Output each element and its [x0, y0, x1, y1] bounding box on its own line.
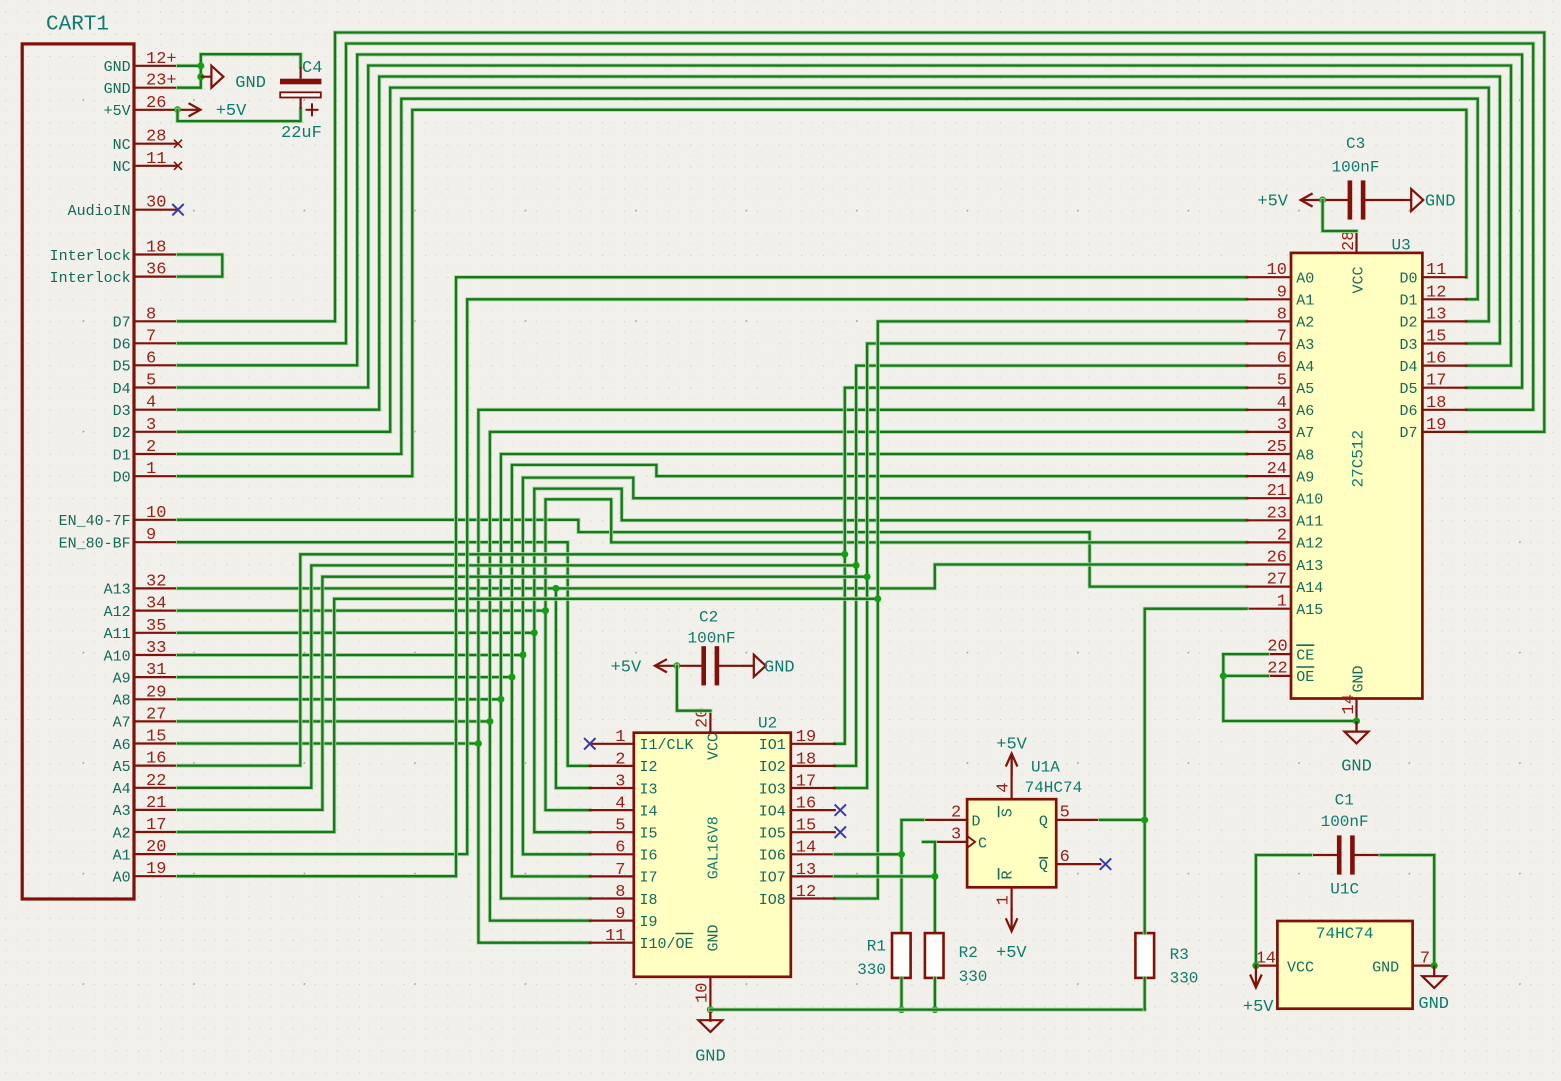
- svg-text:Q: Q: [1039, 813, 1048, 830]
- wire R2 bottom to GND rail: [933, 978, 937, 1010]
- svg-text:I6: I6: [640, 848, 658, 865]
- connector pin 27 A7: [134, 720, 178, 722]
- svg-text:29: 29: [146, 683, 166, 702]
- svg-text:23+: 23+: [146, 72, 177, 91]
- svg-text:11: 11: [605, 927, 625, 946]
- svg-text:26: 26: [1267, 549, 1287, 568]
- wire A3 channel: [178, 577, 867, 810]
- label +5V at C2: [611, 658, 642, 677]
- svg-text:+5V: +5V: [996, 735, 1027, 754]
- svg-text:D6: D6: [1399, 403, 1417, 420]
- svg-text:14: 14: [796, 839, 816, 858]
- svg-text:4: 4: [1277, 394, 1287, 413]
- wire D7 connector to ROM: [178, 33, 1544, 432]
- wire A10 tap to GAL: [523, 655, 590, 854]
- connector pin 29 A8: [134, 698, 178, 700]
- connector pin 16 A5: [134, 764, 178, 766]
- wire A4 riser to ROM: [856, 366, 1247, 566]
- svg-text:6: 6: [615, 839, 625, 858]
- svg-text:7: 7: [1420, 949, 1430, 968]
- wire A7 tap to GAL: [490, 721, 590, 920]
- wire A5 channel: [178, 554, 845, 765]
- connector pin 33 A10: [134, 654, 178, 656]
- label GND at U1C pin7: [1418, 995, 1449, 1014]
- power symbol GND below U3: [1345, 721, 1369, 743]
- label GND at C3: [1425, 193, 1456, 212]
- svg-text:9: 9: [1277, 283, 1287, 302]
- label 27C512 vertical: [1350, 430, 1368, 488]
- svg-text:3: 3: [951, 826, 961, 845]
- connector pin 19 A0: [134, 875, 178, 877]
- junction R1 GND: [898, 1006, 905, 1013]
- connector pin 5 D4: [134, 386, 178, 388]
- wire R1 bottom to GND rail: [900, 978, 904, 1010]
- svg-text:I4: I4: [640, 803, 658, 820]
- svg-text:16: 16: [146, 750, 166, 769]
- svg-text:330: 330: [1170, 970, 1199, 988]
- ROM pin 28 VCC: [1355, 231, 1357, 253]
- svg-text:D4: D4: [113, 381, 131, 398]
- wire GND pin12 to junction: [178, 64, 201, 68]
- svg-text:A0: A0: [113, 870, 131, 887]
- svg-text:4: 4: [995, 782, 1014, 792]
- connector pin 17 A2: [134, 831, 178, 833]
- GAL pin 16 IO4: [791, 809, 835, 811]
- svg-text:A8: A8: [113, 693, 131, 710]
- svg-text:30: 30: [146, 194, 166, 213]
- wire D2 connector to ROM: [178, 88, 1489, 432]
- label U3: [1392, 237, 1411, 255]
- power symbol GND below U1C pin7: [1422, 966, 1446, 988]
- svg-text:IO3: IO3: [759, 781, 786, 798]
- power symbol +5V at connector: [179, 103, 201, 116]
- svg-text:A9: A9: [1296, 469, 1314, 486]
- label C2 100nF: [688, 630, 736, 648]
- svg-text:5: 5: [1060, 804, 1070, 823]
- svg-text:10: 10: [146, 504, 166, 523]
- svg-text:1: 1: [615, 728, 625, 747]
- wire A3 riser to ROM: [867, 344, 1247, 577]
- connector CART1 reference label: [46, 14, 109, 37]
- svg-text:9: 9: [146, 526, 156, 545]
- connector pin 12+ GND: [134, 65, 178, 67]
- connector CART1 outline: [22, 44, 134, 899]
- svg-text:27C512: 27C512: [1350, 430, 1368, 488]
- label GND below U3: [1341, 758, 1372, 777]
- ROM pin 12 D1: [1422, 298, 1466, 300]
- connector pin 35 A11: [134, 632, 178, 634]
- wire D1 connector to ROM: [178, 99, 1478, 454]
- flip-flop U1A body: [967, 799, 1056, 887]
- connector pin 8 D7: [134, 320, 178, 322]
- junction IO6 D R1: [898, 851, 905, 858]
- svg-text:A2: A2: [1296, 315, 1314, 332]
- svg-text:5: 5: [615, 817, 625, 836]
- connector pin 11 NC: [134, 165, 178, 167]
- svg-text:GND: GND: [1372, 959, 1399, 976]
- svg-text:S: S: [999, 808, 1016, 817]
- svg-text:36: 36: [146, 261, 166, 280]
- svg-text:CART1: CART1: [46, 14, 109, 37]
- power symbol +5V above U1A: [1006, 754, 1018, 777]
- wire GND pin23 riser: [178, 54, 301, 87]
- svg-text:GND: GND: [695, 1047, 726, 1066]
- svg-text:A13: A13: [1296, 558, 1323, 575]
- IC U1C body: [1277, 921, 1412, 1009]
- no-connect X GAL IO4: [835, 804, 846, 815]
- ROM pin 19 D7: [1422, 431, 1466, 433]
- svg-text:I10/OE: I10/OE: [640, 936, 694, 953]
- svg-text:11: 11: [1426, 261, 1446, 280]
- wire A8 to ROM: [178, 454, 1247, 699]
- GAL pin 3 I3: [590, 787, 634, 789]
- svg-text:D1: D1: [113, 447, 131, 464]
- label U3 VCC vertical: [1351, 266, 1368, 293]
- ROM pin 4 A6: [1247, 409, 1291, 411]
- svg-text:C1: C1: [1335, 792, 1354, 810]
- svg-text:21: 21: [146, 794, 166, 813]
- svg-text:D: D: [972, 813, 981, 830]
- GAL pin 11 I10/OE: [590, 942, 634, 944]
- resistor R2: [925, 933, 944, 978]
- svg-text:R2: R2: [959, 944, 978, 962]
- ROM pin 16 D4: [1422, 365, 1466, 367]
- connector pin 18 Interlock: [134, 253, 178, 255]
- wire A12 tap to GAL: [546, 611, 590, 811]
- wire A11 to ROM: [178, 489, 1247, 633]
- U1A pin 5 Q: [1056, 819, 1100, 821]
- connector pin 34 A12: [134, 609, 178, 611]
- label U1A 74HC74: [1025, 779, 1083, 797]
- wire A2 riser to ROM: [878, 321, 1247, 598]
- svg-text:VCC: VCC: [1287, 959, 1314, 976]
- ROM pin 14 GND: [1355, 699, 1357, 732]
- svg-text:12+: 12+: [146, 50, 177, 69]
- svg-text:+5V: +5V: [104, 103, 131, 120]
- svg-text:13: 13: [796, 861, 816, 880]
- wire CE OE tie: [1223, 654, 1268, 676]
- label U3 GND vertical: [1351, 665, 1368, 692]
- svg-text:22: 22: [146, 772, 166, 791]
- GAL pin 6 I6: [590, 853, 634, 855]
- svg-text:8: 8: [1277, 305, 1287, 324]
- svg-text:IO6: IO6: [759, 848, 786, 865]
- ROM pin 2 A12: [1247, 541, 1291, 543]
- label U2 GND vertical: [706, 924, 723, 951]
- svg-text:20: 20: [146, 838, 166, 857]
- label U1A: [1031, 759, 1060, 777]
- wire A9 tap to GAL: [512, 677, 590, 876]
- svg-text:D1: D1: [1399, 293, 1417, 310]
- wire A11 tap to GAL: [534, 633, 590, 832]
- wire Q to A15 and R3: [1100, 818, 1145, 822]
- svg-text:CE: CE: [1296, 647, 1314, 664]
- svg-text:3: 3: [615, 772, 625, 791]
- label C4: [302, 59, 322, 78]
- svg-text:+5V: +5V: [1243, 998, 1274, 1017]
- label R3: [1170, 946, 1189, 964]
- wire A6 tap to GAL: [478, 744, 589, 943]
- svg-text:15: 15: [146, 728, 166, 747]
- wire A5 drop to GAL IO: [835, 554, 845, 744]
- svg-text:Interlock: Interlock: [50, 248, 131, 265]
- connector pin 6 D5: [134, 364, 178, 366]
- svg-text:I7: I7: [640, 870, 658, 887]
- power symbol +5V at C2: [655, 659, 677, 672]
- svg-text:IO4: IO4: [759, 803, 786, 820]
- wire C1 right to GND: [1381, 855, 1435, 966]
- svg-text:GND: GND: [706, 924, 723, 951]
- svg-text:EN_40-7F: EN_40-7F: [59, 513, 131, 530]
- wire GND rail: [710, 1008, 1144, 1012]
- svg-text:6: 6: [1277, 350, 1287, 369]
- connector pin 23+ GND: [134, 87, 178, 89]
- svg-text:GND: GND: [1425, 193, 1456, 212]
- svg-text:2: 2: [1277, 526, 1287, 545]
- svg-text:+5V: +5V: [1257, 193, 1288, 212]
- junction A3 channel: [864, 573, 871, 580]
- svg-text:A4: A4: [113, 781, 131, 798]
- label GAL16V8 vertical: [706, 816, 723, 879]
- ROM pin 7 A3: [1247, 342, 1291, 344]
- ROM pin 25 A8: [1247, 453, 1291, 455]
- wire D4 connector to ROM: [178, 66, 1511, 388]
- svg-text:NC: NC: [113, 159, 131, 176]
- svg-text:IO2: IO2: [759, 759, 786, 776]
- junction CE OE: [1220, 672, 1227, 679]
- svg-text:6: 6: [1060, 848, 1070, 867]
- junction U3 GND: [1353, 718, 1360, 725]
- svg-text:34: 34: [146, 595, 166, 614]
- svg-text:17: 17: [796, 772, 816, 791]
- no-connect X U1A Qbar: [1100, 858, 1111, 869]
- connector pin 32 A13: [134, 587, 178, 589]
- connector pin 31 A9: [134, 676, 178, 678]
- svg-text:GND: GND: [104, 81, 131, 98]
- svg-text:IO5: IO5: [759, 826, 786, 843]
- svg-text:A1: A1: [113, 847, 131, 864]
- wire A12 to ROM: [178, 499, 1247, 610]
- resistor R3: [1135, 933, 1154, 978]
- wire A10 to ROM: [178, 478, 1247, 655]
- svg-text:R3: R3: [1170, 946, 1189, 964]
- svg-text:3: 3: [1277, 416, 1287, 435]
- svg-text:18: 18: [146, 239, 166, 258]
- GAL pin 17 IO3: [791, 787, 835, 789]
- U1A pin 3 C clock: [923, 841, 967, 843]
- svg-text:GND: GND: [764, 658, 795, 677]
- connector pin 22 A4: [134, 787, 178, 789]
- svg-text:1: 1: [1277, 593, 1287, 612]
- junction A6: [475, 740, 482, 747]
- ROM pin 26 A13: [1247, 563, 1291, 565]
- wire A4 drop to GAL IO: [835, 565, 856, 766]
- junction A10: [519, 652, 526, 659]
- svg-text:19: 19: [1426, 416, 1446, 435]
- svg-text:100nF: 100nF: [1321, 813, 1369, 831]
- label C3 100nF: [1332, 159, 1380, 177]
- svg-text:D0: D0: [113, 470, 131, 487]
- svg-text:A9: A9: [113, 670, 131, 687]
- ROM pin 23 A11: [1247, 519, 1291, 521]
- junction A8: [497, 696, 504, 703]
- wire A8 tap to GAL: [501, 699, 590, 898]
- power symbol GND near C4: [201, 66, 224, 88]
- svg-text:I1/CLK: I1/CLK: [640, 737, 694, 754]
- junction GND a: [197, 62, 204, 69]
- svg-text:3: 3: [146, 416, 156, 435]
- GAL pin 12 IO8: [791, 897, 835, 899]
- svg-text:27: 27: [1267, 571, 1287, 590]
- power symbol GND at C3: [1401, 189, 1424, 211]
- svg-text:8: 8: [615, 883, 625, 902]
- svg-text:26: 26: [146, 94, 166, 113]
- connector pin 20 A1: [134, 853, 178, 855]
- svg-text:A5: A5: [113, 759, 131, 776]
- svg-text:D6: D6: [113, 337, 131, 354]
- svg-text:28: 28: [1340, 231, 1359, 251]
- GAL pin 2 I2: [590, 765, 634, 767]
- svg-text:21: 21: [1267, 482, 1287, 501]
- svg-text:1: 1: [146, 460, 156, 479]
- svg-text:33: 33: [146, 639, 166, 658]
- svg-text:A15: A15: [1296, 602, 1323, 619]
- junction C2 +5V: [673, 662, 680, 669]
- wire A13 tap to GAL I3: [556, 588, 590, 788]
- svg-text:28: 28: [146, 128, 166, 147]
- connector pin 7 D6: [134, 342, 178, 344]
- GAL pin 19 IO1: [791, 743, 835, 745]
- label C3: [1346, 135, 1365, 153]
- svg-text:IO8: IO8: [759, 892, 786, 909]
- label U1C: [1330, 881, 1359, 899]
- svg-text:A13: A13: [104, 582, 131, 599]
- svg-text:U1C: U1C: [1330, 881, 1359, 899]
- svg-text:Interlock: Interlock: [50, 270, 131, 287]
- ROM pin 27 A14: [1247, 585, 1291, 587]
- svg-text:74HC74: 74HC74: [1025, 779, 1083, 797]
- junction C3 +5V: [1319, 197, 1326, 204]
- ROM pin 9 A1: [1247, 298, 1291, 300]
- label U1C 74HC74: [1316, 925, 1374, 943]
- svg-text:15: 15: [796, 817, 816, 836]
- svg-text:1: 1: [995, 895, 1014, 905]
- power symbol GND below U2: [698, 1010, 722, 1032]
- U1A pin 4 Sbar: [1010, 755, 1012, 799]
- ROM pin 11 D0: [1422, 276, 1466, 278]
- svg-text:12: 12: [1426, 283, 1446, 302]
- wire +5V to C4 bottom: [178, 109, 301, 121]
- ROM pin 3 A7: [1247, 431, 1291, 433]
- svg-text:330: 330: [959, 968, 988, 986]
- label C1 100nF: [1321, 813, 1369, 831]
- svg-text:17: 17: [1426, 372, 1446, 391]
- svg-text:A10: A10: [1296, 492, 1323, 509]
- ROM pin 20 CE: [1268, 653, 1291, 655]
- GAL pin 1 I1/CLK: [590, 743, 634, 745]
- IC U2 GAL16V8 body: [634, 733, 791, 977]
- junction A4 channel: [853, 562, 860, 569]
- svg-text:4: 4: [615, 795, 625, 814]
- svg-text:10: 10: [1267, 261, 1287, 280]
- svg-text:35: 35: [146, 617, 166, 636]
- connector pin 3 D2: [134, 431, 178, 433]
- label U2: [758, 715, 777, 733]
- svg-text:23: 23: [1267, 504, 1287, 523]
- svg-text:+5V: +5V: [611, 658, 642, 677]
- junction A2 channel: [874, 595, 881, 602]
- svg-text:GND: GND: [1351, 665, 1368, 692]
- GAL pin 7 I7: [590, 875, 634, 877]
- svg-text:A11: A11: [1296, 514, 1323, 531]
- connector pin 9 EN_80-BF: [134, 541, 178, 543]
- svg-text:AudioIN: AudioIN: [68, 203, 131, 220]
- svg-text:74HC74: 74HC74: [1316, 925, 1374, 943]
- svg-text:5: 5: [146, 372, 156, 391]
- label R1: [867, 938, 886, 956]
- svg-text:GND: GND: [104, 59, 131, 76]
- label R1 330: [857, 961, 886, 979]
- ROM pin 17 D5: [1422, 387, 1466, 389]
- svg-text:C4: C4: [302, 59, 322, 78]
- svg-text:A7: A7: [113, 715, 131, 732]
- svg-text:25: 25: [1267, 438, 1287, 457]
- GAL pin 5 I5: [590, 831, 634, 833]
- svg-text:+5V: +5V: [996, 944, 1027, 963]
- ROM pin 10 A0: [1247, 276, 1291, 278]
- svg-text:24: 24: [1267, 460, 1287, 479]
- svg-text:7: 7: [615, 861, 625, 880]
- wire A2 channel: [178, 599, 878, 832]
- svg-text:U2: U2: [758, 715, 777, 733]
- junction A12: [542, 607, 549, 614]
- connector pin 10 EN_40-7F: [134, 519, 178, 521]
- label C1: [1335, 792, 1354, 810]
- junction U2 GND: [707, 1006, 714, 1013]
- svg-text:22: 22: [1267, 659, 1287, 678]
- svg-text:6: 6: [146, 349, 156, 368]
- wire GAL IO7 to U1A C and R2: [835, 874, 935, 878]
- wire C3 to U3 VCC: [1323, 200, 1357, 231]
- svg-text:C: C: [978, 835, 987, 852]
- no-connect X GAL IO5: [835, 827, 846, 838]
- ROM pin 13 D2: [1422, 320, 1466, 322]
- IC U3 27C512 body: [1291, 253, 1422, 699]
- svg-text:12: 12: [796, 883, 816, 902]
- svg-text:C3: C3: [1346, 135, 1365, 153]
- svg-text:VCC: VCC: [1351, 266, 1368, 293]
- GAL pin 15 IO5: [791, 831, 835, 833]
- svg-text:I9: I9: [640, 914, 658, 931]
- svg-text:VCC: VCC: [706, 733, 723, 760]
- junction U1C VCC: [1252, 962, 1259, 969]
- wire A5 riser to ROM: [845, 388, 1247, 555]
- svg-text:330: 330: [857, 961, 886, 979]
- svg-text:32: 32: [146, 572, 166, 591]
- wire A6 to ROM: [178, 410, 1247, 744]
- GAL pin 9 I9: [590, 919, 634, 921]
- svg-text:14: 14: [1340, 694, 1359, 714]
- svg-text:100nF: 100nF: [688, 630, 736, 648]
- svg-text:16: 16: [1426, 350, 1446, 369]
- junction U1C GND: [1431, 962, 1438, 969]
- svg-text:I5: I5: [640, 826, 658, 843]
- power symbol +5V below U1C VCC: [1250, 965, 1262, 988]
- svg-text:GND: GND: [1341, 758, 1372, 777]
- label +5V below U1A: [996, 944, 1027, 963]
- connector pin 36 Interlock: [134, 276, 178, 278]
- wire Interlock loop: [178, 255, 222, 277]
